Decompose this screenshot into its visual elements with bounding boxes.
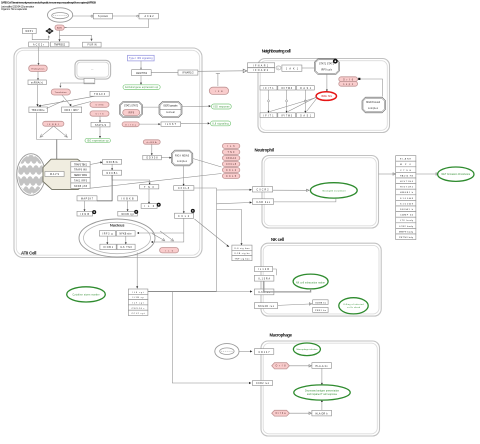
svg-text:ISRE ISG: ISRE ISG: [321, 96, 332, 98]
node NK receptor K1: [254, 267, 272, 272]
svg-text:TAK1 IRF3: TAK1 IRF3: [74, 180, 88, 183]
svg-text:IFIT1: IFIT1: [264, 88, 275, 90]
Neighbouring cell compartment: [258, 48, 390, 132]
node antigen presentation big green ellipse: [294, 385, 350, 400]
wire ACE2 elbow down-left to pink ACE2 receptor: [66, 19, 149, 28]
svg-text:ssRNA(+): ssRNA(+): [31, 81, 43, 84]
wire IRF3 box down to green label: [99, 127, 101, 137]
svg-text:MAVS: MAVS: [50, 173, 59, 176]
svg-text:Antiviral gene expression up: Antiviral gene expression up: [125, 86, 159, 89]
wire pink endocytosis to box: [37, 72, 39, 80]
svg-text:FURIN: FURIN: [88, 45, 97, 47]
svg-text:IRF3 / IRF7: IRF3 / IRF7: [65, 110, 80, 112]
wire DDX58 to octagon3: [161, 157, 170, 159]
svg-text:CXCL8: CXCL8: [178, 188, 190, 190]
node S protein: [91, 13, 112, 19]
svg-text:CCL2: CCL2: [226, 170, 237, 172]
wire IL6/RF diag to 3-stack: [195, 219, 229, 246]
wire n1 to n3: [106, 236, 108, 243]
svg-text:Organism: Homo sapiens list: Organism: Homo sapiens list: [1, 8, 27, 11]
wire junction vertical down to y291: [216, 188, 218, 292]
mitochondrion: [15, 154, 47, 196]
wire STAT out right to green pill2: [181, 122, 208, 124]
svg-text:Killing of infected: Killing of infected: [344, 303, 365, 306]
svg-text:TRAF6 IKK: TRAF6 IKK: [74, 169, 87, 172]
svg-text:TMPRSS2: TMPRSS2: [54, 45, 66, 47]
node Endocytosis (pink): [29, 65, 48, 71]
svg-text:Neutrophil recruitment: Neutrophil recruitment: [323, 189, 346, 192]
svg-text:IFIT1: IFIT1: [264, 115, 275, 117]
svg-text:TNF sig box: TNF sig box: [235, 258, 251, 260]
svg-text:IRF9 cplx: IRF9 cplx: [321, 69, 333, 71]
small virion donut: [215, 344, 239, 360]
wire MHC down to green ellipse: [321, 368, 323, 383]
node viral RNA box: [28, 80, 46, 85]
svg-text:STAT1/2: STAT1/2: [95, 124, 107, 127]
svg-text:Cytokine storm marker: Cytokine storm marker: [73, 293, 100, 296]
wire center down to mitochondrion: [56, 140, 58, 168]
svg-text:NFKBIA: NFKBIA: [107, 161, 118, 164]
wire blue to IFNAR: [140, 61, 142, 69]
node viral protein pink hex 2: [272, 410, 290, 416]
node IL6 pink beside nucleus: [160, 248, 179, 253]
wire N1 to green ellipse: [273, 189, 307, 191]
node Orf9b pink oval 1: [90, 102, 109, 107]
node NK receptor K2: [254, 275, 274, 281]
wire IFNAR down to green: [140, 76, 142, 84]
wire RA to RD: [84, 201, 86, 210]
node RC box + catalysis: [141, 203, 161, 209]
node DDX58 box: [143, 155, 162, 160]
wire M2 elbow right to box3: [112, 175, 150, 183]
wire box3 down to RC: [148, 189, 150, 203]
node RD box + catalysis: [77, 210, 96, 216]
wire branch elbow down to 3-stack: [217, 210, 242, 245]
fan wires red ellipse to ISG rows: [270, 97, 317, 112]
svg-text:IFNB: IFNB: [80, 214, 89, 216]
node MHC box: [312, 363, 332, 369]
node K6 box: [313, 307, 328, 312]
node IFN pink oval (secreted): [209, 87, 228, 94]
ATII cell compartment: [14, 48, 202, 258]
wire S protein to ACE2: [112, 15, 136, 17]
nucleus compartment: [79, 219, 155, 257]
svg-text:HLA-DR b: HLA-DR b: [316, 412, 329, 415]
svg-text:HIST1H2: HIST1H2: [400, 187, 414, 189]
wire n2 to n4: [125, 236, 127, 243]
wire stack to TRAF box diag: [90, 162, 101, 164]
node pathway link (blue): [128, 55, 155, 61]
svg-text:ACE2r: ACE2r: [33, 44, 44, 47]
wire nucleus down to interleukin stack: [136, 253, 138, 288]
node MHC box 2: [312, 410, 332, 416]
svg-text:IL6 signaling: IL6 signaling: [213, 124, 230, 126]
svg-text:Type I IFN signaling: Type I IFN signaling: [129, 58, 153, 60]
svg-text:OAS1: OAS1: [300, 87, 312, 90]
T-bar inhibition from IFN pink oval: [216, 73, 220, 86]
svg-text:IKBKB: IKBKB: [122, 199, 134, 201]
svg-text:S protein: S protein: [98, 15, 109, 18]
wire pp1a diag to IRF box: [62, 95, 71, 106]
svg-text:IFNB1: IFNB1: [103, 247, 114, 249]
svg-text:LCN2 body: LCN2 body: [399, 226, 414, 228]
bracket lines below TBK1/IRF: [37, 113, 72, 140]
node ACE2 top box: [137, 13, 159, 19]
svg-text:and impaired T cell response: and impaired T cell response: [307, 393, 338, 396]
node dsRNA pink: [143, 140, 160, 144]
svg-text:ISGF3 bound: ISGF3 bound: [366, 102, 381, 104]
node NK exhaustion green ellipse: [293, 274, 328, 289]
svg-text:TRAF3 TBK1: TRAF3 TBK1: [74, 163, 88, 166]
node M2 box: [103, 170, 122, 175]
NET stack of 15 boxes: [396, 156, 416, 240]
svg-text:IFNAR1: IFNAR1: [253, 64, 269, 67]
node Orf6 pink oval 2: [90, 111, 109, 116]
wire M2 down to RA row: [97, 175, 112, 201]
wire octagon2 out right to green pill: [182, 105, 209, 107]
wire pink pills elbow to octagon5: [360, 79, 382, 97]
node NETosis green ellipse: [438, 167, 474, 181]
svg-text:ISG response: ISG response: [214, 106, 231, 109]
svg-text:NFKB tgt: NFKB tgt: [122, 213, 134, 216]
wire Orf9b diag to IRF box: [73, 102, 92, 107]
wires row1 to row2 with circles: [268, 90, 307, 113]
svg-text:JAK1/TYK2: JAK1/TYK2: [136, 72, 148, 75]
svg-text:Macrophage: Macrophage: [270, 333, 293, 338]
svg-text:ISG expression up: ISG expression up: [87, 140, 109, 143]
svg-text:TNF: TNF: [228, 152, 236, 154]
svg-text:IL6 sig box: IL6 sig box: [235, 248, 251, 250]
wire K1/K2 elbow to ellipse: [273, 269, 277, 275]
node antiviral green label: [123, 85, 160, 90]
MAVS platform (beige octagon): [43, 159, 85, 189]
node IRF3 box: [91, 122, 110, 127]
svg-text:OAS1: OAS1: [300, 114, 312, 117]
node IRF3/7 box row: [62, 107, 82, 113]
svg-text:GZMB bx: GZMB bx: [315, 302, 327, 304]
node green pill secreted 1: [211, 104, 231, 109]
svg-text:RIG-I MDA5: RIG-I MDA5: [175, 154, 190, 157]
svg-text:complex: complex: [368, 108, 379, 110]
node ISG expression green label: [85, 138, 110, 142]
svg-text:IRF3 g: IRF3 g: [103, 234, 114, 236]
node MAVS box: [45, 172, 64, 177]
svg-text:NKG2D rec: NKG2D rec: [258, 305, 275, 308]
svg-text:Endocytosis: Endocytosis: [32, 67, 46, 70]
wire branch to neutrophil N1: [217, 189, 251, 191]
svg-text:Orf6: Orf6: [343, 78, 354, 81]
node neutrophil receptor N2: [252, 199, 273, 205]
wire NET stack to NETosis ellipse: [416, 173, 436, 175]
wire receptor A down to pink: [38, 47, 40, 64]
heparan sulfate diamond: [46, 28, 54, 34]
wire branch down to macrophage: [172, 292, 249, 384]
svg-text:MMP9 body: MMP9 body: [399, 231, 414, 233]
node JAK box: [282, 65, 302, 71]
svg-text:CXCL8: CXCL8: [226, 164, 237, 166]
complex octagon 3 (RIG-I/MDA5): [171, 150, 192, 166]
node IFNAR box: [132, 70, 152, 76]
node nsp pink row3: [122, 122, 139, 127]
node RA box: [77, 196, 97, 201]
svg-text:NET formation thrombosis: NET formation thrombosis: [442, 173, 471, 176]
svg-text:IFNAR1/2: IFNAR1/2: [183, 72, 195, 75]
wire hex1 to MHC: [289, 365, 309, 367]
svg-text:CXCR2: CXCR2: [257, 190, 270, 192]
cytokine pink stack of 6: [222, 144, 239, 179]
node ISG row2 boxes: [260, 113, 314, 118]
svg-text:CD147: CD147: [259, 352, 271, 354]
MAVS complex stack of 5: [71, 161, 90, 188]
svg-text:Neighbouring cell: Neighbouring cell: [262, 48, 291, 53]
node NRP1 box left: [22, 28, 36, 33]
svg-text:TBK1/IKKe: TBK1/IKKe: [32, 110, 46, 112]
svg-text:ISGF3 complex: ISGF3 complex: [164, 106, 179, 108]
wire NRP1 to diamond: [32, 34, 49, 40]
node neutrophil receptor N1: [252, 187, 272, 192]
node pp1a pink: [51, 89, 70, 95]
wire MAVS stack to cytokine stack (long diag): [90, 174, 221, 189]
node RB box: [118, 196, 138, 201]
wire M1 to M2: [111, 164, 113, 169]
svg-text:TRAF3: TRAF3: [94, 93, 106, 96]
wire long horizontal to NK K3: [148, 291, 217, 293]
wire dsRNA to DDX58: [151, 144, 153, 154]
NK cell compartment: [261, 237, 381, 316]
wire MHC2 up to green ellipse: [321, 401, 323, 410]
svg-text:NFKB p65: NFKB p65: [74, 186, 88, 188]
svg-text:HLA-A bx: HLA-A bx: [316, 365, 329, 368]
complex octagon 2 (ISRE): [159, 102, 182, 118]
node ISG row1 boxes: [260, 86, 314, 90]
node cytokine storm green ellipse: [67, 287, 106, 302]
wire ssRNA box down to TBK1: [37, 85, 39, 105]
node boxG IL6 export: [174, 186, 194, 191]
wire octagon4 down to red ellipse: [326, 74, 328, 90]
node STAT box row3: [161, 122, 181, 126]
svg-text:Orf6: Orf6: [96, 113, 105, 116]
svg-text:NEMO TAB1: NEMO TAB1: [74, 174, 88, 177]
wire virion to S protein: [73, 15, 91, 17]
svg-text:cells dead: cells dead: [347, 307, 361, 309]
svg-text:IFNB1: IFNB1: [47, 124, 60, 126]
svg-text:IL1B sig bx: IL1B sig bx: [235, 253, 251, 255]
svg-text:CCL5: CCL5: [226, 176, 237, 178]
wire IFNAR to SOCS: [151, 72, 178, 74]
svg-text:STAT1 STAT2: STAT1 STAT2: [124, 105, 139, 108]
svg-text:IL7 cyt: IL7 cyt: [133, 302, 144, 305]
svg-text:PADI4 H3: PADI4 H3: [400, 174, 414, 177]
svg-text:S100A9: S100A9: [400, 202, 414, 205]
svg-text:ATII Cell: ATII Cell: [21, 251, 37, 256]
wire N2 elbow to green ellipse bottom: [274, 199, 336, 202]
node ISRE red ellipse: [316, 92, 336, 101]
wire ACE2 branch to membrane receptor C: [60, 35, 92, 39]
small vesicle tab box: [84, 78, 95, 83]
svg-text:ELANE: ELANE: [400, 158, 412, 161]
node n4 box: [117, 244, 135, 249]
node NK receptor K3: [254, 289, 274, 295]
svg-text:NK cell: NK cell: [271, 237, 284, 242]
node viral protein pink hex 1: [272, 363, 290, 369]
node RE box + catalysis: [118, 210, 138, 216]
svg-text:DDX58: DDX58: [147, 158, 159, 160]
wire octagon3 down to boxG: [183, 166, 185, 185]
svg-text:NFKB1: NFKB1: [107, 173, 119, 175]
svg-text:IFITM3: IFITM3: [281, 88, 293, 90]
svg-text:DEFA1 b: DEFA1 b: [400, 208, 414, 211]
svg-text:NK cell exhaustion maker: NK cell exhaustion maker: [296, 281, 325, 284]
svg-text:CXCL10: CXCL10: [226, 158, 237, 160]
svg-text:PRF1 bx: PRF1 bx: [315, 310, 327, 312]
wire boxG to RF: [183, 190, 185, 212]
node TBK1 box row: [29, 107, 47, 113]
node hyperinflammation green ellipse small: [293, 343, 320, 356]
svg-text:Macrophage infection: Macrophage infection: [297, 348, 319, 351]
complex octagon 1 (ISGF3 w/ pink): [120, 102, 143, 118]
wire ACE2 pink down to membrane: [59, 30, 61, 40]
node box3 TNF: [140, 185, 159, 189]
membrane receptor box C: [83, 42, 102, 47]
svg-text:ACE2: ACE2: [57, 27, 63, 30]
svg-text:IL6 cyt: IL6 cyt: [133, 291, 144, 294]
svg-text:Translation: Translation: [55, 91, 68, 94]
svg-text:ACE2: ACE2: [145, 15, 155, 18]
membrane receptor box B: [51, 42, 70, 47]
Macrophage cell compartment: [261, 333, 380, 437]
interleukin 5-stack below ATII: [128, 289, 148, 316]
svg-text:nuclear: nuclear: [166, 111, 175, 114]
wire elbow into nucleus n4: [152, 233, 184, 242]
wire octagon1 to octagon2: [143, 106, 160, 108]
svg-text:CCL2 cyt: CCL2 cyt: [132, 312, 145, 315]
node NK receptor K4: [254, 303, 277, 309]
wire JAK to octagon4: [302, 67, 314, 69]
svg-text:NRP1: NRP1: [26, 31, 34, 33]
svg-text:PRTN3 bdy: PRTN3 bdy: [399, 237, 414, 239]
svg-text:CAMP bd: CAMP bd: [400, 214, 414, 217]
node macrophage receptor: [254, 349, 273, 355]
svg-text:MPO: MPO: [400, 164, 411, 166]
wire TRAF3 diag to TBK1: [40, 96, 96, 106]
node macrophage membrane box 2: [253, 381, 273, 386]
complex octagon 5: [362, 97, 386, 113]
svg-text:IL6 TNF: IL6 TNF: [120, 247, 133, 249]
wire RB to RE: [127, 201, 129, 210]
cytokine 3-stack outside NK: [232, 245, 252, 261]
wire SOCS box out to neighbouring receptor: [198, 70, 244, 73]
svg-text:Nucleus: Nucleus: [110, 224, 125, 228]
membrane receptor box A: [29, 42, 49, 47]
svg-text:Orf9b: Orf9b: [96, 104, 105, 107]
svg-text:IL1B cy: IL1B cy: [133, 297, 145, 299]
svg-text:IL6R box: IL6R box: [256, 202, 271, 204]
svg-text:IFITM3: IFITM3: [281, 115, 293, 117]
wire endosome vesicle elbow to translation: [60, 83, 93, 87]
svg-text:IFNAR2: IFNAR2: [253, 69, 269, 72]
node n2 box: [116, 231, 135, 236]
wire crossing diag TBK1 to Orf area: [47, 101, 65, 109]
node K5 box: [313, 300, 328, 305]
svg-text:STAT1 STAT2: STAT1 STAT2: [319, 62, 335, 65]
node SOCS box right: [178, 70, 198, 75]
svg-text:CXCL10 c: CXCL10 c: [132, 308, 146, 310]
SARS-CoV-2 virion (donut): [48, 8, 73, 22]
node RF box + catalysis: [175, 209, 195, 218]
svg-text:complex: complex: [177, 161, 188, 163]
svg-text:IL15RA: IL15RA: [258, 278, 270, 281]
wire neutrophil export right: [379, 173, 394, 175]
svg-text:dsRNA: dsRNA: [147, 141, 158, 144]
wire K4 to K5/K6: [278, 304, 310, 305]
node TRAF3 box: [90, 91, 109, 96]
wire Orf6 to IRF3 box: [99, 116, 101, 121]
open arrowheads into IL6 pink: [152, 234, 165, 241]
svg-text:CCR2 rec: CCR2 rec: [256, 382, 270, 385]
svg-text:IRF9: IRF9: [128, 113, 135, 115]
wire hex2 to MHC2: [289, 412, 309, 414]
wire nsp to STAT: [139, 123, 159, 125]
wire RF elbow into nucleus n2: [138, 218, 184, 233]
wire boxG right to junction column: [194, 187, 217, 189]
complex octagon 4 (STAT complex): [314, 59, 339, 75]
wire virion to receptor: [239, 350, 251, 352]
svg-text:Decreased antigen presentation: Decreased antigen presentation: [305, 390, 340, 393]
node NK cytotoxicity green ellipse: [339, 298, 368, 314]
node n3 box: [100, 244, 116, 249]
V arrows from IFNB1: [40, 126, 54, 137]
node neutrophil activation green ellipse: [310, 183, 357, 198]
wire octagon3 to cytokine stack: [193, 159, 222, 168]
node green pill secreted 2: [211, 121, 231, 126]
node IFNB1 pink oval: [43, 121, 64, 126]
endosome vesicle compartment: [75, 60, 111, 79]
ligand small circle: [276, 66, 281, 70]
svg-text:LTF body: LTF body: [400, 220, 414, 222]
node ACE2 receptor (pink): [55, 25, 64, 30]
node M1 box: [103, 159, 122, 164]
node IFNAR receptor stacked boxes: [248, 63, 275, 73]
svg-text:Neutrophil: Neutrophil: [255, 148, 275, 153]
svg-text:MAP3K7: MAP3K7: [81, 198, 94, 201]
wire branch to neutrophil N2: [217, 203, 251, 204]
node suppressor pink pills: [339, 77, 361, 86]
node n1 box: [99, 231, 115, 236]
svg-text:HMGB1 b: HMGB1 b: [400, 192, 414, 194]
Neutrophil cell compartment: [255, 148, 379, 228]
svg-text:SARS-CoV-2 innate immunity eva: SARS-CoV-2 innate immunity evasion and c…: [1, 0, 97, 4]
svg-text:S100A8: S100A8: [400, 197, 414, 200]
svg-text:HIST1H4: HIST1H4: [400, 181, 414, 183]
svg-text:Orf8: Orf8: [276, 365, 287, 368]
svg-text:NFKB site: NFKB site: [120, 233, 133, 236]
